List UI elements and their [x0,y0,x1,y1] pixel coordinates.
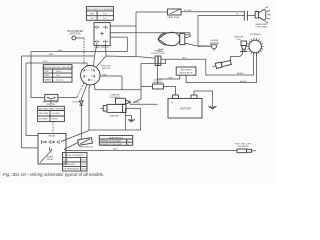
wire: rail x21.5 to relay [22,56,39,148]
svg-text:DIODE: DIODE [73,102,80,104]
wire: block mid to headlamp [110,33,190,38]
ground symbol battery [208,103,216,109]
table: operator seat [99,136,132,146]
svg-text:RELAY: RELAY [47,158,54,161]
svg-text:SWITCH: SWITCH [102,68,111,70]
svg-text:COIL: COIL [236,39,242,41]
wire: controller bottom to breaker [157,66,159,85]
svg-text:L: L [86,76,88,78]
svg-text:IN GEAR: IN GEAR [39,118,48,121]
svg-text:SOLENOID: SOLENOID [238,146,249,148]
spark controller connector [151,50,166,66]
svg-text:RED: RED [102,74,107,76]
wire: breaker junction up-loop [141,59,166,86]
svg-text:CIRCUIT: CIRCUIT [154,80,163,82]
svg-text:Fig. JD1-10—Wiring schematic t: Fig. JD1-10—Wiring schematic typical of … [3,172,104,177]
wire: engine circle to headlight junction [198,15,244,46]
hour meter [67,30,84,66]
svg-text:30-87: 30-87 [81,169,87,171]
svg-text:LAMP FUSE: LAMP FUSE [168,16,180,19]
ignition coil [234,37,248,52]
svg-text:SEAT SWITCH: SEAT SWITCH [79,146,94,149]
wire: block terminal to ignition switch [94,43,98,66]
fuse on rail [81,85,87,101]
svg-text:OPERATOR OFF SEAT: OPERATOR OFF SEAT [100,143,123,146]
seat switch [61,131,93,150]
flywheel wires to controller and rectifier [162,52,254,75]
svg-text:(OPTIONAL): (OPTIONAL) [256,25,268,28]
svg-text:BATTERY: BATTERY [181,108,192,111]
svg-text:B+ RED: B+ RED [184,10,192,12]
svg-text:RUN: RUN [45,75,50,77]
svg-text:M: M [91,76,93,78]
wire: fuse to headlight [181,11,244,13]
spark plug [213,52,243,69]
svg-text:SWITCH: SWITCH [47,104,56,106]
svg-text:S: S [86,70,88,72]
svg-text:RED: RED [169,77,174,79]
svg-text:DIODE: DIODE [133,102,140,104]
wire battery to ground [194,91,213,103]
neutral start switch [43,94,61,133]
svg-text:NEUTRAL: NEUTRAL [39,112,50,115]
table: ignition switch continuity [42,65,74,83]
wire: block bottom loop to left rail [31,37,127,97]
svg-text:RED: RED [58,50,63,52]
svg-text:BLACK: BLACK [237,72,244,75]
svg-text:FLYWHEEL: FLYWHEEL [250,34,262,36]
svg-text:ENERGIZED: ENERGIZED [64,164,77,166]
wire: block terminal B lead [105,43,108,56]
svg-text:ON: ON [90,18,94,20]
svg-text:RED: RED [182,58,187,60]
starter solenoid module + diode [116,98,158,104]
svg-text:START: START [45,79,52,82]
wire: rail x26 to relay top [26,63,38,136]
svg-text:OPERATOR ON SEAT: OPERATOR ON SEAT [100,140,122,143]
svg-text:B: B [91,70,93,72]
svg-text:DE-ENERGIZED: DE-ENERGIZED [64,169,80,171]
headlight optional with rays [244,7,270,29]
wire: breaker to battery positive [164,87,176,96]
svg-text:RED: RED [49,54,54,56]
svg-text:B+L: B+L [103,18,108,20]
svg-text:G: G [91,79,93,81]
svg-text:NEUTRAL START SWITCH: NEUTRAL START SWITCH [38,108,64,111]
table: relay continuity [63,153,88,171]
svg-text:RECTIFIER: RECTIFIER [181,70,192,72]
wire: x136 vertical fuse junction [135,12,137,57]
svg-text:CLOSED: CLOSED [52,113,61,115]
wire ignition right [100,76,122,90]
wire: ignition B to fuse junction and controller [97,56,156,67]
svg-text:RED: RED [113,148,118,150]
svg-text:SOLENOID: SOLENOID [110,97,121,99]
svg-text:86-85: 86-85 [81,159,87,161]
wire: y63 line over table [26,63,87,66]
svg-text:B+L: B+L [103,13,108,15]
circuit breaker [133,59,176,103]
svg-text:CONTROLLER: CONTROLLER [151,53,166,55]
svg-text:REGULATOR: REGULATOR [180,72,193,75]
ignition switch [81,66,112,85]
flywheel alternator [247,34,264,55]
svg-text:87-30: 87-30 [81,164,87,166]
svg-text:OPEN: OPEN [52,119,58,121]
wire y89.8 [95,89,141,91]
svg-text:STARTER: STARTER [109,114,119,117]
start relay box [38,134,66,165]
svg-text:COIL: COIL [64,159,70,161]
wire: headlight to engine ground [185,43,211,46]
svg-text:IGNITION SWITCH CONTINUITY: IGNITION SWITCH CONTINUITY [42,67,74,69]
table: neutral start switch [38,106,65,121]
svg-text:(OPTION): (OPTION) [70,32,81,35]
rail x89 [89,85,126,130]
wire: block top to fuse junction [110,25,136,27]
svg-text:—: — [76,44,79,46]
svg-text:OFF: OFF [90,13,95,15]
svg-text:B+L+S: B+L+S [57,80,64,82]
wires ignition bottom: dashed to NSS [77,83,84,98]
table: light switch continuity [86,7,115,21]
fuel shut-off solenoid [235,143,256,152]
svg-text:+: + [171,101,173,105]
wire: fuse left lead [136,11,168,13]
svg-text:RELAY: RELAY [49,135,56,138]
fuse box [168,9,182,19]
ground box [126,108,141,130]
light switch block [94,23,110,49]
wire: flywheel to rectifier [186,53,256,83]
battery [168,95,202,118]
svg-text:PUR: PUR [43,61,48,63]
svg-text:OFF: OFF [45,71,50,73]
wire: long run to solenoid [66,150,237,152]
svg-text:SEAT SWITCH: SEAT SWITCH [109,136,124,139]
headlight left bulb [158,32,211,53]
rectifier-regulator [158,67,196,79]
svg-text:GROUND: GROUND [210,43,220,45]
svg-text:M+G: M+G [57,71,62,73]
wire: y56 to ignition [22,55,95,57]
engine ground circle [210,40,220,51]
svg-text:BLACK: BLACK [240,80,247,83]
starter motor [101,94,127,118]
svg-text:RELAY CONTINUITY: RELAY CONTINUITY [65,154,86,157]
svg-text:LIGHT SWITCH CONTINUITY: LIGHT SWITCH CONTINUITY [86,9,115,11]
wire: headlight top lead [185,34,190,37]
